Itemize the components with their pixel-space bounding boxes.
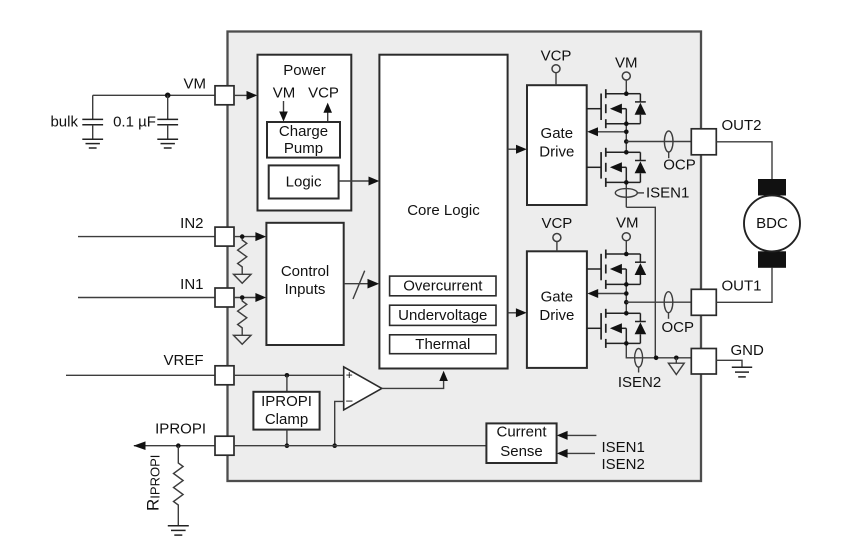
block Thermal — [390, 335, 496, 354]
resistor IN1 pulldown — [238, 299, 247, 335]
transistor Q3 high-side (bridge 2) — [587, 250, 626, 289]
svg-text:+: + — [346, 368, 353, 382]
svg-text:Inputs: Inputs — [285, 281, 326, 298]
diode D3 body (Q3) — [626, 254, 646, 284]
bus slash — [353, 271, 365, 299]
diode D4 body (Q4) — [626, 313, 646, 343]
svg-text:Gate: Gate — [541, 125, 574, 142]
svg-text:ISEN1: ISEN1 — [646, 184, 689, 201]
capacitor C1 0.1uF — [157, 95, 178, 139]
block Core Logic — [379, 55, 507, 369]
node ground bus junction dots — [654, 356, 679, 361]
pin VREF — [215, 366, 234, 385]
svg-text:IPROPI: IPROPI — [261, 393, 312, 410]
op-amp U1 comparator — [344, 367, 382, 410]
node ISEN2 sense — [618, 349, 661, 391]
svg-text:OUT2: OUT2 — [722, 117, 762, 134]
transistor Q4 low-side (bridge 2) — [587, 309, 626, 348]
transistor Q1 high-side (bridge 1) — [587, 89, 627, 128]
svg-text:IPROPI: IPROPI — [155, 420, 206, 437]
wire comparator minus input — [332, 401, 343, 448]
wire VREF to comparator — [234, 373, 344, 378]
ground (bridge ground arrow) — [668, 358, 684, 375]
svg-text:Drive: Drive — [539, 307, 574, 324]
svg-text:OCP: OCP — [661, 319, 694, 336]
wire bridge 1 source to ground bus — [626, 207, 655, 357]
ground (GND earth) — [732, 367, 752, 377]
block Power — [258, 55, 352, 211]
pin IN1 — [215, 288, 234, 307]
wire VCP arrow out of Charge Pump — [323, 103, 332, 122]
node VCP terminal circle (upper) — [552, 65, 560, 86]
node VM terminal circle (lower) — [622, 233, 630, 254]
svg-text:Pump: Pump — [284, 140, 323, 157]
block Current Sense — [486, 423, 556, 463]
motor BDC — [744, 179, 800, 268]
svg-text:VM: VM — [615, 55, 638, 72]
wire Core Logic to Gate Drive 2 arrow — [508, 308, 527, 317]
wire Logic to Core Logic arrow — [339, 177, 380, 186]
svg-text:ISEN2: ISEN2 — [602, 456, 645, 473]
wire GND to earth — [716, 360, 742, 367]
node bridge 1 junction dots — [624, 91, 629, 184]
svg-text:OUT1: OUT1 — [722, 278, 762, 295]
wire bridge 1 feedback arrow into Gate Drive 1 — [587, 127, 626, 136]
svg-text:VREF: VREF — [163, 352, 203, 369]
node VCP terminal circle (lower) — [553, 234, 561, 252]
ground (C1 earth) — [157, 139, 178, 148]
svg-text:VM: VM — [616, 215, 639, 232]
pin IPROPI — [215, 436, 234, 455]
diode D1 body (Q1) — [626, 94, 646, 124]
capacitor bulk — [82, 95, 103, 139]
wire ISEN2 input arrow into Current Sense — [557, 449, 595, 458]
node bridge 2 junction dots — [624, 252, 629, 346]
svg-text:VCP: VCP — [308, 85, 339, 102]
svg-text:IN1: IN1 — [180, 276, 203, 293]
block Overcurrent — [390, 276, 496, 296]
svg-text:BDC: BDC — [756, 215, 788, 232]
svg-text:ISEN2: ISEN2 — [618, 374, 661, 391]
svg-text:bulk: bulk — [50, 114, 78, 131]
node OCP sense (upper) — [663, 131, 696, 174]
wire OUT1 — [626, 301, 691, 303]
svg-text:VCP: VCP — [541, 47, 572, 64]
wire ISEN1 input arrow into Current Sense — [557, 431, 597, 440]
resistor IN2 pulldown — [238, 239, 247, 275]
wire OUT1 to motor — [716, 268, 772, 303]
diode D2 body (Q2) — [626, 152, 646, 182]
svg-text:Logic: Logic — [286, 174, 322, 191]
node clamp bottom junction — [285, 443, 290, 448]
block Charge Pump — [267, 122, 340, 158]
wire OUT2 — [626, 141, 691, 143]
pin OUT2 — [691, 129, 716, 155]
wire IN1 to Control Inputs arrow — [234, 293, 266, 302]
IC body outline — [228, 32, 702, 482]
wire clamp top lead — [286, 375, 288, 392]
svg-text:VM: VM — [273, 85, 296, 102]
wire bridge 2 trunk — [626, 284, 691, 357]
wire clamp bottom lead — [286, 430, 288, 446]
ground (RIPROPI earth) — [168, 526, 189, 535]
svg-text:0.1 µF: 0.1 µF — [113, 114, 156, 131]
svg-text:Current: Current — [496, 423, 547, 440]
block IPROPI Clamp — [253, 392, 319, 430]
ground (bulk cap earth) — [82, 139, 103, 148]
svg-text:GND: GND — [731, 342, 765, 359]
block Control Inputs — [266, 223, 343, 345]
wire IN2 to Control Inputs arrow — [234, 232, 266, 241]
node VM terminal circle (upper) — [622, 72, 630, 94]
svg-text:VM: VM — [184, 76, 207, 93]
svg-text:OCP: OCP — [663, 157, 696, 174]
block Gate Drive 1 — [527, 85, 587, 205]
wire comparator output to Core Logic arrow — [382, 371, 448, 389]
pin OUT1 — [691, 289, 716, 315]
resistor RIPROPI — [174, 446, 184, 526]
block Logic — [269, 165, 339, 198]
svg-text:Drive: Drive — [539, 144, 574, 161]
wire VM arrow into Charge Pump — [279, 101, 288, 122]
block Gate Drive 2 — [527, 251, 587, 368]
node ISEN1 sense — [615, 184, 689, 201]
wire IPROPI external with arrow — [133, 441, 215, 450]
wire bridge 1 trunk — [625, 124, 627, 208]
svg-text:Charge: Charge — [279, 123, 328, 140]
svg-text:Core Logic: Core Logic — [407, 202, 480, 219]
svg-text:ISEN1: ISEN1 — [602, 439, 645, 456]
ground (IN2 pulldown arrow) — [234, 274, 252, 283]
wire IPROPI internal to Current Sense — [234, 445, 486, 447]
svg-text:Sense: Sense — [500, 443, 543, 460]
wire bridge 2 feedback arrow into Gate Drive 2 — [587, 289, 626, 298]
svg-text:VCP: VCP — [541, 215, 572, 232]
svg-text:Control: Control — [281, 263, 329, 280]
svg-text:Thermal: Thermal — [415, 336, 470, 353]
wire IN1 external — [78, 297, 215, 299]
ground (IN1 pulldown arrow) — [234, 335, 252, 344]
wire VM pin to Power box with arrow — [234, 94, 248, 96]
svg-text:IN2: IN2 — [180, 215, 203, 232]
svg-text:Clamp: Clamp — [265, 411, 308, 428]
pin VM — [215, 86, 234, 105]
block Undervoltage — [390, 305, 496, 325]
node OCP sense (lower) — [661, 292, 694, 337]
pin GND — [691, 349, 716, 375]
wire VM supply (bulk cap to VM pin) — [93, 94, 215, 96]
wire Control Inputs to Core Logic (bus) arrow — [344, 279, 380, 289]
node VM junction dot — [165, 93, 171, 99]
transistor Q2 low-side (bridge 1) — [587, 148, 627, 187]
wire VREF external — [66, 374, 215, 376]
wire OUT2 to motor — [716, 142, 772, 179]
svg-text:−: − — [346, 393, 354, 408]
svg-text:Overcurrent: Overcurrent — [403, 278, 483, 295]
svg-text:Power: Power — [283, 62, 326, 79]
wire IN2 external — [78, 236, 215, 238]
pin IN2 — [215, 227, 234, 246]
svg-text:Gate: Gate — [541, 289, 574, 306]
wire Core Logic to Gate Drive 1 arrow — [508, 145, 527, 154]
svg-text:Undervoltage: Undervoltage — [398, 307, 487, 324]
